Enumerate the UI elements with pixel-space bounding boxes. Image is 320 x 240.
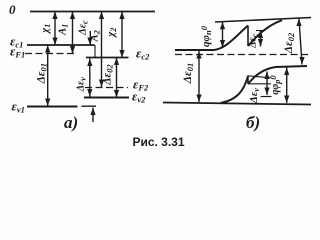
svg-text:а): а) (64, 113, 78, 132)
svg-text:Δεc: Δεc (77, 20, 89, 36)
svg-text:χ1: χ1 (40, 24, 52, 35)
svg-text:Δεv: Δεv (75, 77, 87, 92)
svg-text:A1: A1 (58, 24, 70, 36)
svg-text:Рис. 3.31: Рис. 3.31 (132, 135, 184, 149)
svg-text:0: 0 (9, 2, 16, 17)
svg-text:б): б) (246, 113, 260, 132)
svg-text:Δεc: Δεc (247, 33, 259, 48)
svg-text:A2: A2 (89, 29, 101, 42)
svg-text:χ2: χ2 (106, 27, 118, 39)
